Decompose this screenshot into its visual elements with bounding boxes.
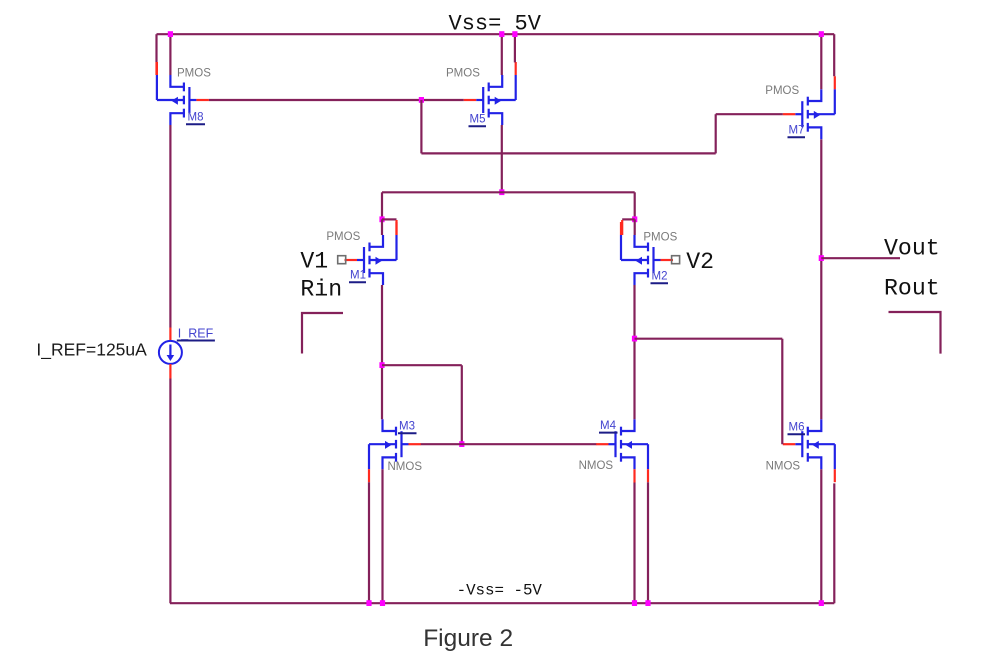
wire: tail horizontal bbox=[382, 191, 635, 193]
wire: gate bus to M7 gate bbox=[716, 113, 783, 115]
wire: M3 source to VSS rail bbox=[381, 469, 383, 603]
wire: diode branch drop to gate bus bbox=[461, 365, 463, 444]
junction at rail / M4 source bbox=[632, 600, 637, 606]
pin stub: I_REF bottom bbox=[169, 364, 171, 379]
svg-text:M3: M3 bbox=[399, 421, 415, 433]
wire: drop to M6 gate bbox=[781, 339, 783, 445]
port V1 bbox=[338, 256, 346, 264]
wire: M2 source bbox=[634, 219, 636, 235]
svg-text:Vss= 5V: Vss= 5V bbox=[449, 11, 542, 36]
Rout probe bracket bbox=[889, 312, 941, 354]
wire: diode branch horizontal bbox=[382, 364, 462, 366]
wire: VSS rail (-Vss= -5V) bbox=[170, 602, 834, 604]
NMOS transistor M4 bbox=[579, 419, 648, 482]
pin stub: I_REF top bbox=[169, 328, 171, 342]
wire: branch to M2 bulk bbox=[622, 218, 635, 220]
PMOS transistor M5 bbox=[446, 62, 516, 126]
Rin probe bracket bbox=[302, 313, 343, 354]
NMOS transistor M3 bbox=[369, 419, 422, 482]
wire: I_REF to VSS rail bbox=[169, 379, 171, 604]
svg-text:Vout: Vout bbox=[884, 235, 940, 261]
junction at Vout tap bbox=[819, 255, 824, 261]
wire: M7 bulk to rail (rail right corner) bbox=[833, 34, 835, 76]
svg-text:Figure 2: Figure 2 bbox=[423, 625, 513, 652]
PMOS transistor M1 bbox=[326, 222, 396, 285]
svg-text:Rin: Rin bbox=[300, 277, 342, 303]
svg-text:M6: M6 bbox=[789, 422, 805, 434]
wire: M5 source to rail bbox=[501, 34, 503, 75]
svg-text:PMOS: PMOS bbox=[643, 231, 677, 243]
svg-text:M8: M8 bbox=[188, 112, 204, 124]
PMOS transistor M2 bbox=[621, 222, 678, 285]
wire: M5 bulk to rail bbox=[514, 34, 516, 62]
junction at rail / M3 source bbox=[380, 600, 385, 606]
junction at rail / M3 bulk bbox=[366, 600, 371, 606]
junction at M1 source node bbox=[379, 216, 384, 222]
wire: NMOS mirror gate bus M3 to M4 bbox=[421, 443, 596, 445]
wire: M1 drain down to M3 bbox=[381, 285, 383, 419]
port V2 bbox=[672, 256, 680, 264]
svg-text:M2: M2 bbox=[652, 271, 668, 283]
junction at rail / M4 bulk bbox=[645, 600, 650, 606]
junction on gate bus bbox=[419, 97, 424, 103]
svg-text:PMOS: PMOS bbox=[177, 68, 211, 80]
wire: M4 source to VSS rail bbox=[633, 483, 635, 604]
junction at M2 source node bbox=[632, 216, 637, 222]
wire: tail drop to M2 bbox=[634, 192, 636, 219]
svg-text:V2: V2 bbox=[686, 249, 714, 275]
wire: gate bus drop bbox=[420, 100, 422, 153]
wire: M2 drain down to M4 bbox=[633, 285, 635, 419]
svg-text:PMOS: PMOS bbox=[765, 85, 799, 97]
svg-text:-Vss= -5V: -Vss= -5V bbox=[457, 582, 543, 600]
svg-text:V1: V1 bbox=[300, 248, 328, 274]
wire: mirror gate bus M8 to M5 bbox=[209, 99, 464, 101]
NMOS transistor M6 bbox=[766, 419, 835, 482]
svg-text:NMOS: NMOS bbox=[388, 461, 423, 473]
svg-text:NMOS: NMOS bbox=[579, 460, 614, 472]
wire: M1 source bbox=[381, 219, 383, 235]
junction at M2 drain / second stage tap bbox=[632, 336, 637, 342]
wire: tail drop to M1 bbox=[381, 192, 383, 219]
wire: M3 bulk to VSS rail bbox=[368, 482, 370, 603]
svg-text:I_REF: I_REF bbox=[178, 327, 214, 341]
wire: M8 bulk to rail bbox=[155, 34, 157, 62]
current source I_REF (125uA) bbox=[159, 327, 215, 364]
svg-text:M5: M5 bbox=[470, 114, 486, 126]
junction on rail at M5 bulk bbox=[512, 31, 517, 37]
wire: second stage horizontal to M6 gate bbox=[635, 338, 783, 340]
svg-text:M4: M4 bbox=[600, 420, 617, 432]
wire: gate bus horizontal run bbox=[421, 152, 715, 154]
junction at rail / M6 source bbox=[819, 600, 824, 606]
wire: Vout stub bbox=[821, 257, 900, 259]
junction on rail at M7 source bbox=[819, 31, 824, 37]
junction at tail node bbox=[499, 189, 504, 195]
svg-text:M7: M7 bbox=[789, 125, 805, 137]
svg-text:PMOS: PMOS bbox=[326, 231, 360, 243]
wire: M7 drain down to M6 drain (output node) bbox=[820, 139, 822, 419]
PMOS transistor M8 bbox=[157, 62, 211, 125]
wire: M6 bulk to VSS rail (rail right corner) bbox=[833, 483, 835, 603]
svg-text:NMOS: NMOS bbox=[766, 461, 801, 473]
junction on rail at M5 source bbox=[499, 31, 504, 37]
junction at NMOS gate bus bbox=[459, 441, 464, 447]
svg-text:I_REF=125uA: I_REF=125uA bbox=[36, 340, 147, 361]
wire: M6 source to VSS rail bbox=[820, 469, 822, 603]
wire: M7 source to rail bbox=[820, 34, 822, 89]
wire: branch to M1 bulk bbox=[382, 218, 397, 220]
wire: M8 drain down to I_REF bbox=[169, 125, 171, 328]
wire: VDD rail (Vss= 5V) bbox=[157, 33, 835, 35]
svg-text:PMOS: PMOS bbox=[446, 68, 480, 80]
svg-text:M1: M1 bbox=[350, 270, 366, 282]
junction on rail at M8 source bbox=[168, 31, 173, 37]
wire: M8 source to rail bbox=[169, 34, 171, 75]
wire: M4 bulk to VSS rail bbox=[647, 482, 649, 603]
svg-text:Rout: Rout bbox=[884, 276, 940, 302]
PMOS transistor M7 bbox=[765, 76, 835, 139]
wire: M5 drain to diff-pair tail bbox=[501, 125, 503, 192]
wire: gate bus riser bbox=[715, 114, 717, 153]
junction at M1 drain / mirror tap bbox=[379, 362, 384, 368]
